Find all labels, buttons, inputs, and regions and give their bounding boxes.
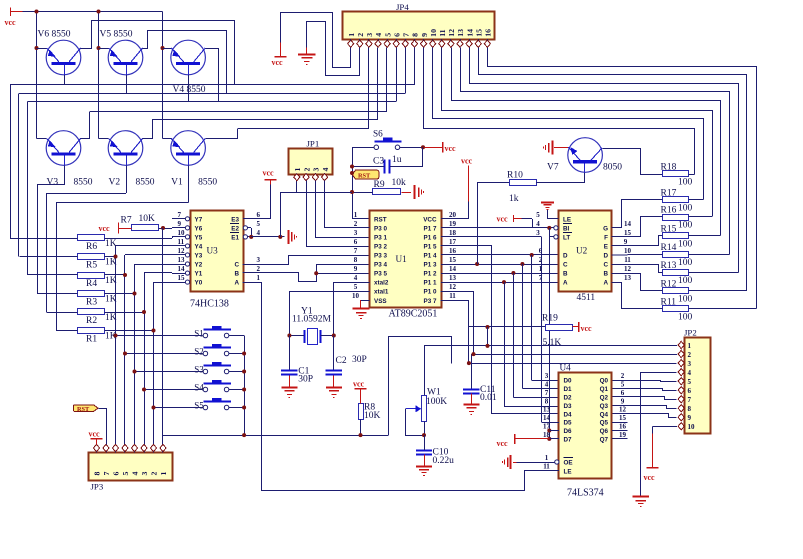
ground C1 xyxy=(281,388,297,398)
node R9 xyxy=(350,190,354,194)
wire C11 bottom xyxy=(471,394,473,405)
svg-text:7: 7 xyxy=(102,472,111,476)
svg-text:LE: LE xyxy=(564,468,572,475)
svg-text:2: 2 xyxy=(539,256,543,264)
wire switch common bus xyxy=(163,336,388,436)
capacitor C10 xyxy=(416,448,454,467)
svg-text:7: 7 xyxy=(539,274,543,282)
svg-text:A: A xyxy=(234,280,239,287)
potentiometer W1 xyxy=(406,388,447,422)
node staple xyxy=(314,271,318,275)
svg-text:3: 3 xyxy=(312,168,321,172)
svg-text:8: 8 xyxy=(93,472,102,476)
svg-text:13: 13 xyxy=(543,406,551,414)
svg-text:vcc: vcc xyxy=(497,439,509,448)
ground R9 rotated xyxy=(415,185,424,199)
wire JP4.6 drop xyxy=(396,47,398,101)
svg-text:1K: 1K xyxy=(105,239,117,249)
node E1 xyxy=(249,235,253,239)
U4 right pin numbers xyxy=(619,372,627,439)
wire crystal right xyxy=(320,335,333,337)
JP1 pin diamonds xyxy=(294,174,328,181)
wire R4 left xyxy=(28,274,78,276)
wire R2 left xyxy=(47,312,78,314)
power VCC top-left xyxy=(5,8,23,28)
svg-text:R4: R4 xyxy=(86,279,97,289)
wire R3 to Y2 and S3 column xyxy=(105,264,173,445)
wire V6 collector Z xyxy=(81,21,235,85)
svg-text:LT: LT xyxy=(563,234,570,241)
wire R8 bottom xyxy=(360,419,362,435)
node S6-VCC xyxy=(421,145,425,149)
svg-text:P3 0: P3 0 xyxy=(374,225,387,232)
svg-text:F: F xyxy=(604,234,608,241)
resistor R8 xyxy=(359,403,381,422)
node RST flag xyxy=(350,171,354,175)
label 74LS374 xyxy=(567,488,604,499)
wire JP4.7 drop xyxy=(405,47,407,93)
svg-text:10: 10 xyxy=(624,247,632,255)
svg-text:11: 11 xyxy=(624,256,631,264)
svg-text:Y3: Y3 xyxy=(195,253,203,260)
svg-text:2: 2 xyxy=(621,372,625,380)
wire W1 wiper loop xyxy=(406,409,425,436)
wire crystal left xyxy=(289,335,304,337)
svg-text:Q7: Q7 xyxy=(600,437,609,444)
wire R15 right xyxy=(688,235,720,237)
svg-text:15: 15 xyxy=(624,229,632,237)
svg-text:R1: R1 xyxy=(86,335,97,345)
svg-text:V6 8550: V6 8550 xyxy=(38,30,71,40)
wire P1.4 to U2.D xyxy=(441,254,559,256)
svg-text:Y1: Y1 xyxy=(195,271,203,278)
label 74HC138 xyxy=(190,299,229,310)
svg-text:U4: U4 xyxy=(560,363,572,373)
svg-text:11.0592M: 11.0592M xyxy=(292,315,332,325)
flag RST bottom xyxy=(74,405,99,413)
svg-text:V5 8550: V5 8550 xyxy=(100,30,133,40)
svg-text:vcc: vcc xyxy=(461,157,473,166)
svg-text:Q0: Q0 xyxy=(600,378,609,385)
node C3 xyxy=(350,165,354,169)
wire R14 right xyxy=(688,254,729,256)
wire U2.E to R15 xyxy=(612,236,663,246)
ground JP2.4 xyxy=(632,497,649,507)
svg-text:0.22u: 0.22u xyxy=(433,456,455,466)
svg-text:vcc: vcc xyxy=(497,215,509,224)
svg-text:vcc: vcc xyxy=(89,430,101,439)
wire C10 top xyxy=(424,435,426,450)
transistor V7 xyxy=(547,138,622,173)
connector JP1 xyxy=(289,139,333,175)
wire xtal2 net xyxy=(334,282,370,335)
wire P1.6 xyxy=(441,236,541,238)
svg-text:Q1: Q1 xyxy=(600,386,609,393)
svg-text:U3: U3 xyxy=(207,246,219,256)
label 4511 xyxy=(577,293,596,303)
svg-text:P3 7: P3 7 xyxy=(424,298,437,305)
wire R5 to Y4 and S1 column xyxy=(105,246,173,445)
node E1-JP1 xyxy=(278,235,282,239)
wire R10 riser xyxy=(477,183,479,264)
wire JP4.2 to GND xyxy=(307,22,360,76)
svg-text:R18: R18 xyxy=(661,163,677,173)
wire Q5 stub xyxy=(612,422,628,424)
wire D5-D7 tie riser xyxy=(549,237,551,439)
wire P3.7 to R19 xyxy=(441,301,677,364)
svg-text:4: 4 xyxy=(257,229,261,237)
wire C3 left xyxy=(352,166,385,168)
svg-text:100: 100 xyxy=(678,312,693,322)
svg-text:9: 9 xyxy=(354,265,358,273)
wire JP4.4 drop xyxy=(377,47,379,120)
svg-text:VSS: VSS xyxy=(374,298,387,305)
svg-text:7: 7 xyxy=(688,396,692,404)
svg-text:5: 5 xyxy=(354,283,358,291)
svg-text:1: 1 xyxy=(159,472,168,476)
switch S4 xyxy=(194,380,231,393)
svg-text:100: 100 xyxy=(678,203,693,213)
wire W1 bottom xyxy=(424,421,426,435)
wire U2.A to R11 xyxy=(612,283,663,309)
svg-text:15: 15 xyxy=(619,414,627,422)
svg-text:C: C xyxy=(603,262,608,269)
wire JP2.4 to gnd xyxy=(641,373,677,497)
svg-text:A: A xyxy=(563,280,568,287)
wire JP1 stubs xyxy=(297,173,325,176)
svg-text:S6: S6 xyxy=(373,128,383,138)
svg-text:S4: S4 xyxy=(194,383,204,393)
wire C1 top xyxy=(289,336,291,370)
node P1.2 D2 xyxy=(511,271,515,275)
power VCC BI LT xyxy=(497,215,533,228)
wire C3 right xyxy=(390,147,423,166)
node xtal left xyxy=(287,334,291,338)
wire R16 right xyxy=(688,216,712,218)
svg-text:12: 12 xyxy=(619,406,627,414)
svg-text:100: 100 xyxy=(678,178,693,188)
wire P1.3 to U2.C xyxy=(441,264,559,266)
wire V3 collector riser xyxy=(81,112,90,139)
svg-text:R3: R3 xyxy=(86,298,97,308)
wire V5 base lead xyxy=(126,75,128,93)
svg-text:100: 100 xyxy=(678,276,693,286)
svg-text:E3: E3 xyxy=(231,216,239,223)
svg-text:11: 11 xyxy=(449,292,456,300)
svg-text:R5: R5 xyxy=(86,261,97,271)
wire Q2 to JP2.7 xyxy=(613,397,677,400)
svg-text:V2: V2 xyxy=(109,178,121,188)
svg-text:12: 12 xyxy=(624,265,632,273)
svg-text:1K: 1K xyxy=(105,313,117,323)
svg-text:4: 4 xyxy=(354,274,358,282)
svg-text:JP4: JP4 xyxy=(396,2,409,12)
node W1 JP2.1 xyxy=(486,344,490,348)
wire JP3 stubs xyxy=(97,451,163,454)
svg-text:V7: V7 xyxy=(547,163,559,173)
svg-text:14: 14 xyxy=(449,265,457,273)
connector JP2 xyxy=(684,328,711,434)
svg-text:R10: R10 xyxy=(507,171,523,181)
node R19 JP2.1 xyxy=(486,325,490,329)
capacitor C11 xyxy=(463,385,497,403)
svg-text:3: 3 xyxy=(354,229,358,237)
svg-text:6: 6 xyxy=(112,472,121,476)
svg-text:D: D xyxy=(603,253,608,260)
svg-text:15: 15 xyxy=(178,274,186,282)
node P1.4 xyxy=(530,253,534,257)
svg-text:100K: 100K xyxy=(426,397,447,407)
svg-text:17: 17 xyxy=(449,238,457,246)
svg-text:BI: BI xyxy=(563,225,570,232)
svg-text:74LS374: 74LS374 xyxy=(567,488,604,499)
svg-text:6: 6 xyxy=(539,247,543,255)
svg-text:RST: RST xyxy=(358,173,371,180)
svg-text:6: 6 xyxy=(257,211,261,219)
wire D0 drop xyxy=(532,255,560,381)
node D6 xyxy=(547,429,551,433)
wire R5 left xyxy=(20,256,78,258)
capacitor C3 xyxy=(373,155,402,174)
wire OE to gnd xyxy=(515,462,555,464)
wire digit line pin5 xyxy=(90,111,387,113)
node P3.7 JP2.3 xyxy=(467,361,471,365)
svg-text:vcc: vcc xyxy=(5,18,17,27)
wire U3.B staple xyxy=(243,265,370,282)
resistor R19 xyxy=(542,314,573,349)
svg-text:Q3: Q3 xyxy=(600,403,609,410)
wire JP1.4 to P3.0 xyxy=(325,181,370,228)
connector JP3 xyxy=(89,453,173,492)
power VCC S6 xyxy=(425,142,457,153)
svg-text:10: 10 xyxy=(688,423,696,431)
svg-text:74HC138: 74HC138 xyxy=(190,299,229,310)
wire C2 top xyxy=(333,336,335,370)
JP2 pin diamonds xyxy=(678,341,684,429)
node xtal right xyxy=(332,334,336,338)
svg-text:2: 2 xyxy=(150,472,159,476)
svg-text:2: 2 xyxy=(356,33,365,37)
svg-text:D7: D7 xyxy=(564,437,573,444)
svg-text:9: 9 xyxy=(624,238,628,246)
node P1.3 R10 xyxy=(475,262,479,266)
wire P1.6 drop xyxy=(541,237,543,422)
wire D5 stub xyxy=(541,422,559,424)
svg-text:Q6: Q6 xyxy=(600,428,609,435)
node R7-Y6 xyxy=(161,226,165,230)
svg-text:100: 100 xyxy=(678,258,693,268)
switch S5 xyxy=(194,398,231,411)
svg-text:vcc: vcc xyxy=(644,473,656,482)
svg-text:100: 100 xyxy=(678,221,693,231)
wire S5 left xyxy=(154,407,203,409)
svg-text:15: 15 xyxy=(474,29,483,37)
svg-text:P1 6: P1 6 xyxy=(424,234,437,241)
svg-text:R9: R9 xyxy=(374,180,385,190)
svg-text:P1 5: P1 5 xyxy=(424,244,437,251)
svg-text:7: 7 xyxy=(178,211,182,219)
wire R7 right xyxy=(159,228,173,230)
wire R7 column to JP3 xyxy=(162,228,164,445)
svg-text:6: 6 xyxy=(354,238,358,246)
IC U1 AT89C2051 xyxy=(370,211,442,308)
svg-text:3: 3 xyxy=(140,472,149,476)
ground OE rotated xyxy=(503,455,517,469)
U3 left pin bubbles xyxy=(185,217,189,284)
wire V2 collector riser xyxy=(143,120,153,139)
wire S4 left xyxy=(144,389,203,391)
svg-text:P1 7: P1 7 xyxy=(424,225,437,232)
resistor R10 xyxy=(507,171,537,205)
wire Q3 to JP2.8 xyxy=(613,406,677,409)
svg-text:19: 19 xyxy=(449,220,457,228)
ground E1 rotated xyxy=(289,230,297,244)
U3 left pin numbers xyxy=(178,211,186,282)
svg-text:vcc: vcc xyxy=(263,169,275,178)
svg-text:9: 9 xyxy=(621,397,625,405)
svg-text:P1 3: P1 3 xyxy=(424,262,437,269)
wire U1 left stubs xyxy=(352,227,370,229)
svg-text:1K: 1K xyxy=(105,295,117,305)
svg-text:4: 4 xyxy=(321,168,330,172)
wire Q0 to JP2.5 xyxy=(613,381,677,382)
svg-text:14: 14 xyxy=(465,29,474,37)
wire xtal1 net xyxy=(289,291,369,335)
wire V5 collector Z xyxy=(143,31,227,94)
resistor R4 xyxy=(78,273,117,290)
ground VSS xyxy=(353,309,370,319)
node S4 xyxy=(142,388,146,392)
svg-text:5: 5 xyxy=(257,220,261,228)
svg-text:Y0: Y0 xyxy=(195,280,203,287)
svg-text:1K: 1K xyxy=(105,258,117,268)
svg-text:RST: RST xyxy=(374,216,387,223)
U2 BI LT bubbles xyxy=(554,226,558,239)
svg-text:1: 1 xyxy=(257,274,261,282)
svg-text:D4: D4 xyxy=(564,411,573,418)
wire JP4.16 to R11 xyxy=(488,48,757,309)
svg-text:5: 5 xyxy=(121,472,130,476)
wire RST to JP3 xyxy=(99,409,107,445)
wire JP4.3 drop xyxy=(368,47,370,128)
resistor R6 xyxy=(78,235,117,253)
svg-text:Y4: Y4 xyxy=(195,244,203,251)
svg-text:P3 4: P3 4 xyxy=(374,262,387,269)
svg-text:C: C xyxy=(234,262,239,269)
wire JP4.9 to R18 xyxy=(424,48,695,175)
node W1 xyxy=(422,433,426,437)
wire VCC rail xyxy=(23,12,163,139)
ground C11 xyxy=(463,405,479,415)
svg-text:11: 11 xyxy=(543,463,550,471)
svg-text:1: 1 xyxy=(354,211,358,219)
wire D3 drop xyxy=(504,282,559,406)
power VCC R7 xyxy=(99,223,132,234)
wire emitter stubs bottom xyxy=(37,138,172,140)
svg-text:C2: C2 xyxy=(336,356,347,366)
wire V4 base lead xyxy=(188,75,190,102)
svg-text:R7: R7 xyxy=(121,216,132,226)
resistor R1 xyxy=(78,328,117,345)
svg-text:20: 20 xyxy=(449,211,457,219)
svg-text:vcc: vcc xyxy=(581,324,593,333)
wire JP1.1 net xyxy=(280,181,352,237)
svg-text:9: 9 xyxy=(420,33,429,37)
svg-text:D2: D2 xyxy=(564,394,573,401)
svg-text:16: 16 xyxy=(484,29,493,37)
svg-text:B: B xyxy=(603,271,608,278)
wire P1.7 to U2 BI LT xyxy=(441,227,554,229)
switch S3 xyxy=(194,362,231,375)
svg-text:AT89C2051: AT89C2051 xyxy=(389,308,438,319)
label U4 xyxy=(560,363,572,373)
transistor V6 xyxy=(38,30,81,75)
svg-text:10K: 10K xyxy=(364,411,381,421)
svg-text:10: 10 xyxy=(429,29,438,37)
wire digit line pin7 xyxy=(19,93,406,256)
svg-text:C3: C3 xyxy=(373,157,384,167)
wire R18 right xyxy=(688,174,694,176)
svg-text:JP3: JP3 xyxy=(91,482,104,492)
svg-text:30P: 30P xyxy=(352,355,367,365)
svg-text:B: B xyxy=(563,271,568,278)
svg-text:VCC: VCC xyxy=(423,216,437,223)
svg-text:P3 5: P3 5 xyxy=(374,271,387,278)
svg-text:4: 4 xyxy=(545,380,549,388)
svg-text:5: 5 xyxy=(383,33,392,37)
svg-text:8550: 8550 xyxy=(198,178,217,188)
svg-text:4: 4 xyxy=(131,472,140,476)
node P1.0 JP2.2 xyxy=(472,352,476,356)
svg-text:D3: D3 xyxy=(564,403,573,410)
resistor R16 xyxy=(661,206,693,231)
wire digit line pin4 xyxy=(152,119,378,121)
svg-text:P1 4: P1 4 xyxy=(424,253,437,260)
svg-text:10K: 10K xyxy=(139,214,156,224)
svg-text:R11: R11 xyxy=(661,297,677,307)
wire R11 right xyxy=(688,308,756,310)
transistor V5 xyxy=(100,30,143,75)
node R5 xyxy=(114,255,118,259)
capacitor C2 xyxy=(326,355,367,375)
wire S6 left xyxy=(352,147,374,149)
connector JP4 xyxy=(343,2,495,40)
label AT89C2051 xyxy=(389,308,438,319)
node S2 xyxy=(123,352,127,356)
wire V1 base net xyxy=(56,166,189,331)
wire JP4.11 to R16 xyxy=(442,48,713,217)
svg-text:U1: U1 xyxy=(396,254,408,264)
svg-text:G: G xyxy=(603,225,608,232)
wire JP2 stubs xyxy=(683,345,685,427)
svg-text:P1 1: P1 1 xyxy=(424,280,437,287)
svg-text:100: 100 xyxy=(678,294,693,304)
wire R6 to Y5 xyxy=(105,237,173,239)
IC U2 4511 xyxy=(559,211,612,292)
wire E1 to gnd xyxy=(251,236,284,238)
svg-text:13: 13 xyxy=(456,29,465,37)
node P1.3 D1 xyxy=(520,262,524,266)
JP4 pin diamonds xyxy=(348,40,491,47)
node R3 xyxy=(133,292,137,296)
switch S2 xyxy=(194,344,231,357)
wire V7 collector to R18 xyxy=(603,149,663,175)
wire R12 right xyxy=(688,290,747,292)
svg-text:6: 6 xyxy=(688,387,692,395)
resistor R13 xyxy=(661,261,693,286)
node D7 xyxy=(547,437,551,441)
svg-text:13: 13 xyxy=(449,274,457,282)
